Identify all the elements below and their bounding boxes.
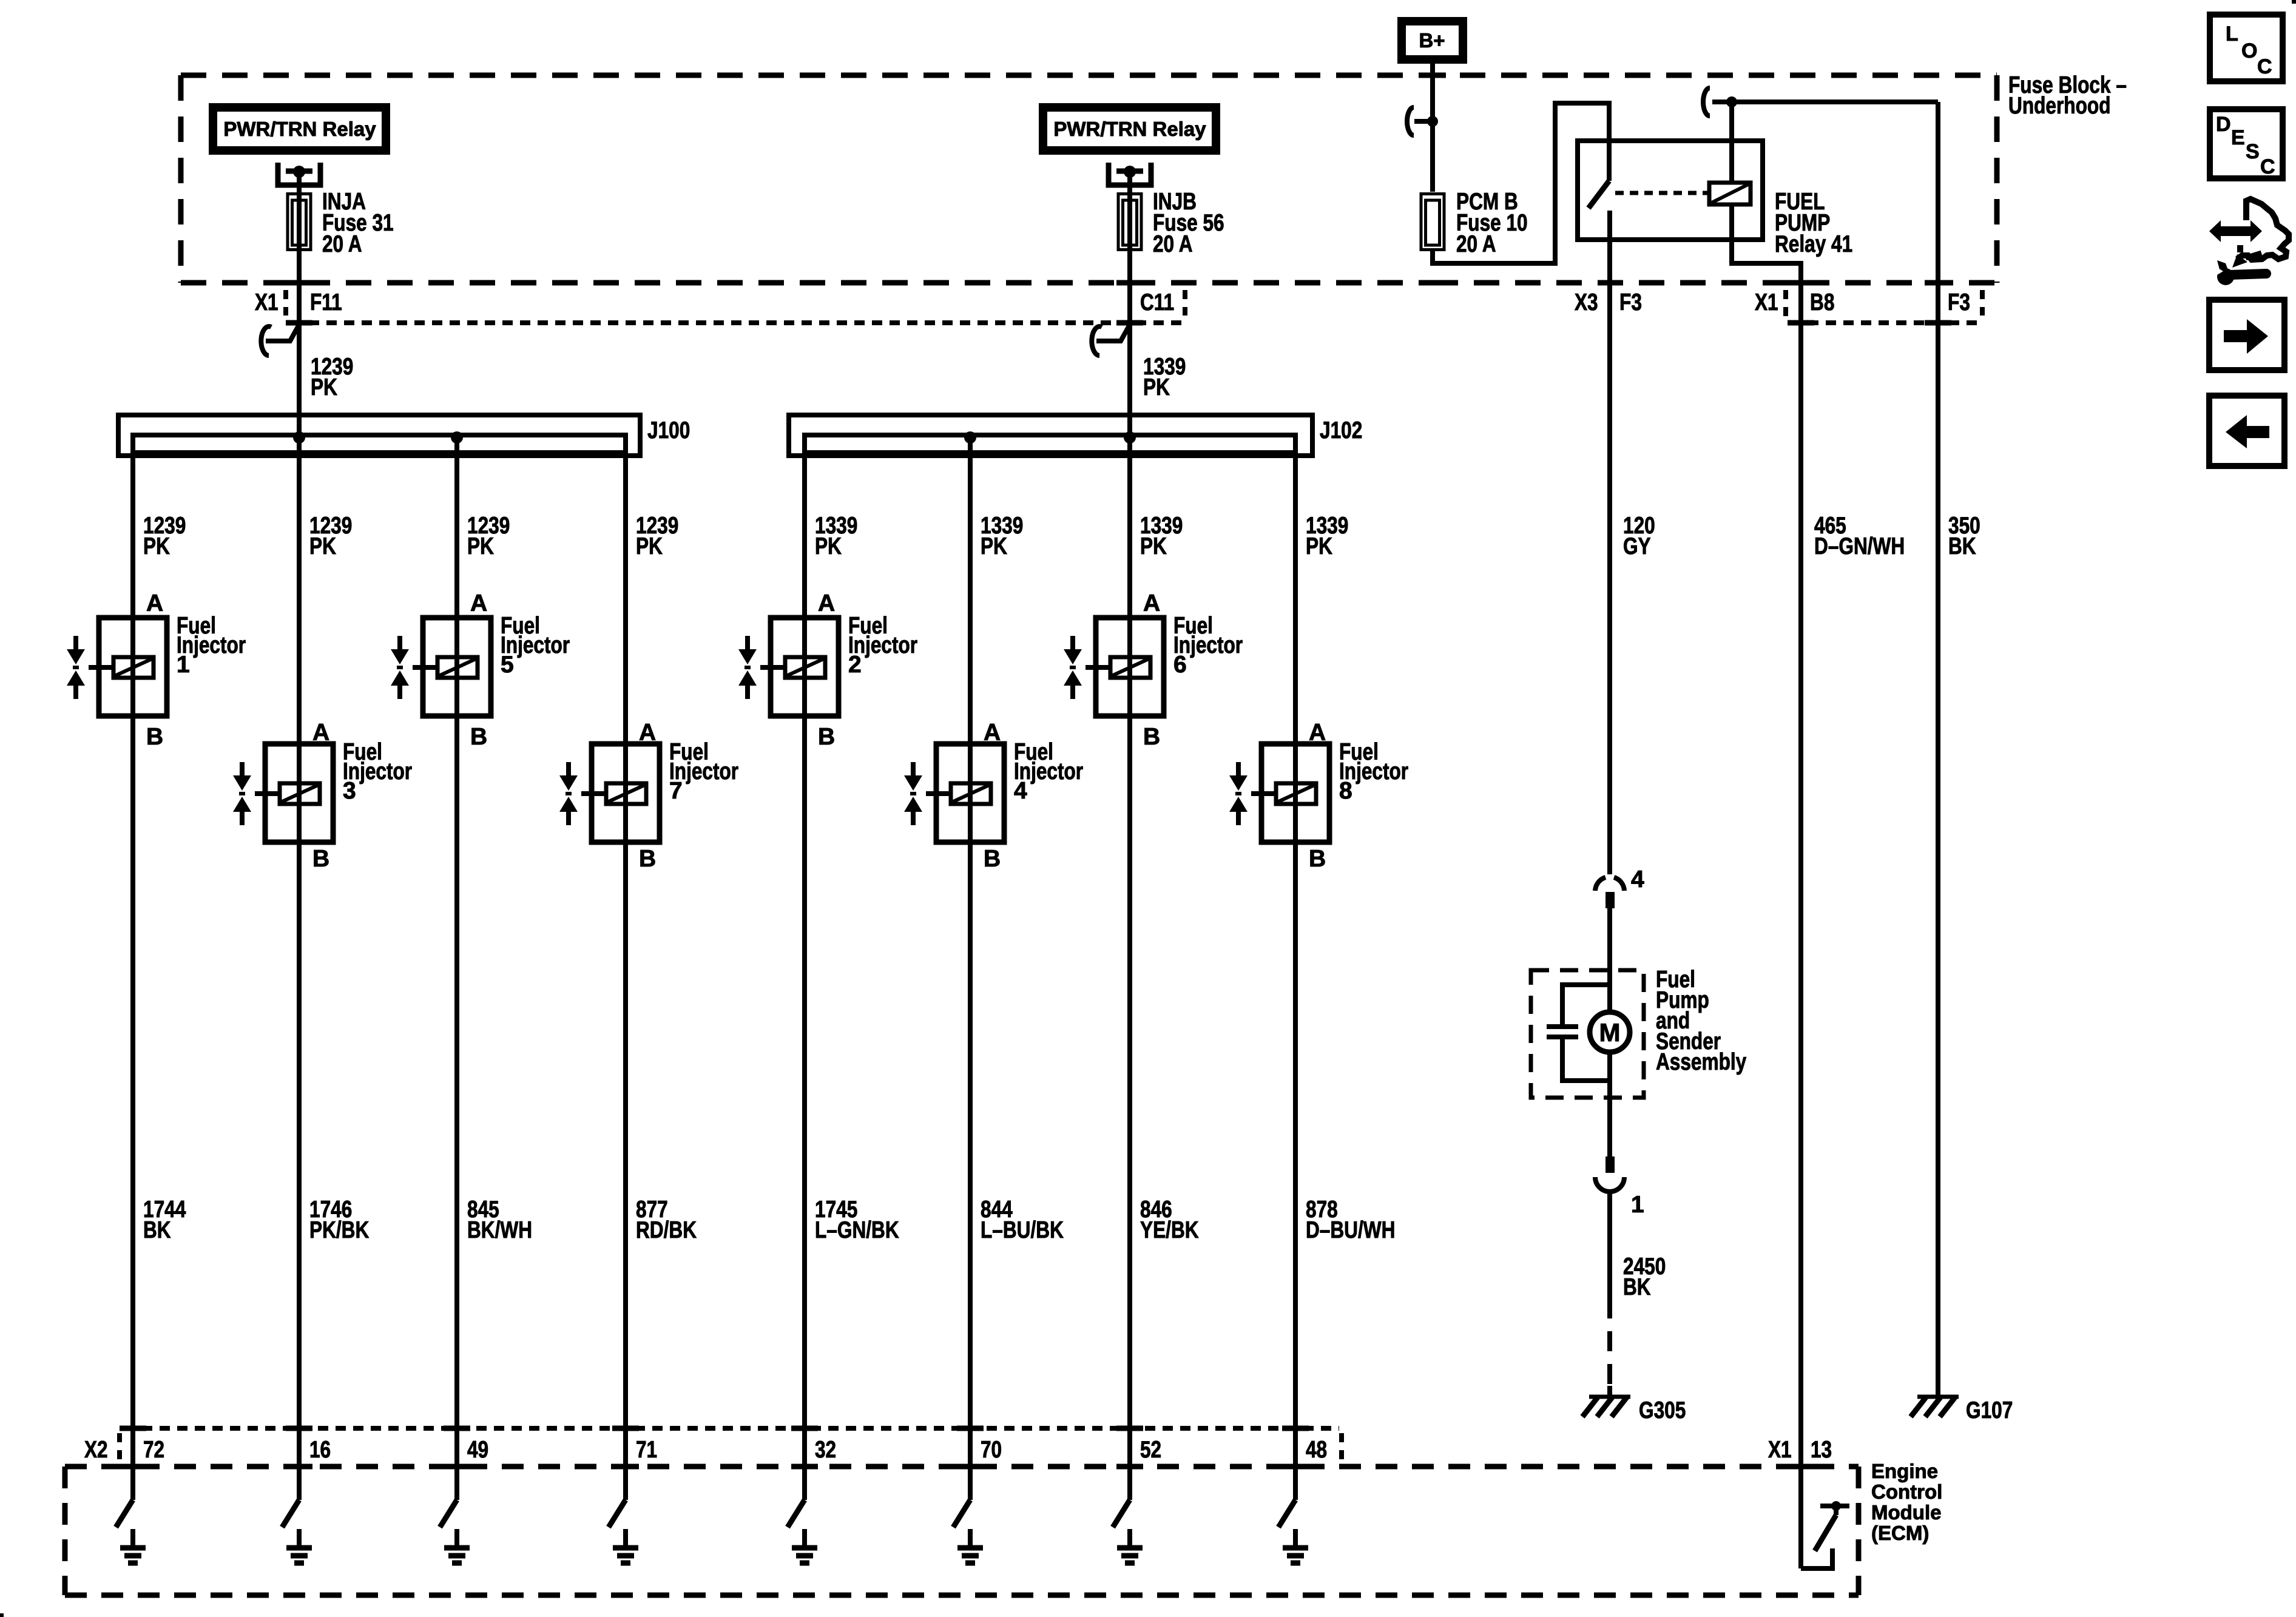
wire column 6 (844 L–BU/BK) [968,437,973,1500]
fuel pump motor M [1590,1012,1630,1052]
svg-text:S: S [2246,140,2260,163]
tick column 5 at X2 strip [791,1426,818,1431]
fuel injector 3 [265,744,333,842]
svg-text:D–GN/WH: D–GN/WH [1814,533,1905,559]
tick column 8 at X2 strip [1282,1426,1309,1431]
wire relay coil to B+ bus [1729,102,1734,183]
svg-text:20 A: 20 A [1456,231,1496,257]
svg-text:20 A: 20 A [1153,231,1193,257]
svg-text:7: 7 [669,778,683,804]
ECM internal fuel pump relay driver [1820,1504,1849,1508]
svg-text:PWR/TRN Relay: PWR/TRN Relay [223,118,376,140]
wire column 7 (846 YE/BK) [1127,437,1132,1500]
svg-text:L–BU/BK: L–BU/BK [981,1217,1064,1243]
separator X2 [117,1433,122,1462]
svg-text:20 A: 20 A [322,231,362,257]
wire column 8 (878 D–BU/WH) [1293,437,1298,1500]
svg-text:A: A [146,590,163,616]
svg-text:F3: F3 [1619,289,1642,316]
svg-text:Engine: Engine [1871,1460,1938,1482]
svg-text:PK/BK: PK/BK [309,1217,369,1243]
ECM internal ground switch pin 70 [953,1500,970,1527]
svg-text:G305: G305 [1639,1397,1686,1423]
svg-text:BK/WH: BK/WH [467,1217,532,1243]
wire column 1 (1744 BK) [130,437,135,1500]
ECM internal ground switch pin 48 [1278,1500,1295,1527]
separator X1|F11 [283,290,288,316]
tick 350 wire at fuse block edge [1925,280,1951,286]
ground G107 [1917,1395,1959,1399]
svg-text:48: 48 [1306,1437,1327,1463]
relay coil [1709,183,1751,204]
svg-text:3: 3 [343,778,356,804]
connector 1 socket arc [1595,1177,1624,1192]
junction dot J102 wire7 [1124,431,1136,444]
tick column 4 at X2 strip [612,1426,639,1431]
separator X1|B8 [1783,290,1788,318]
tick INJB wire at connector strip [1116,320,1143,326]
svg-text:16: 16 [309,1437,331,1463]
relay dashed actuation link [1615,191,1708,195]
svg-text:L: L [2226,22,2238,46]
junction dot B+ entry [1427,116,1438,127]
wire relay to INJA fuse to J100 [297,172,302,437]
svg-text:G107: G107 [1966,1397,2013,1423]
connector strip dotted line B8-F3 [1791,320,1982,325]
ECM dashed box left edge [62,1467,68,1595]
icon DESC button [2210,109,2283,178]
tick column 1 at X2 strip [120,1426,146,1431]
separator right of C11 [1183,290,1187,316]
capacitor plate top [1547,1024,1578,1029]
fuel injector 5 [423,618,491,716]
fuse block dashed box right edge [1994,75,2000,283]
connector 4 socket arc [1595,877,1606,891]
svg-text:A: A [312,720,329,746]
wire PCM B fuse to fuel pump relay switch [1433,103,1609,263]
tick B+ wire at fuse block edge [1419,73,1446,78]
fuse INJA Fuse 31 20A [288,194,311,250]
fuse block dashed box left edge [178,75,184,283]
svg-text:PK: PK [1143,374,1170,400]
svg-text:F3: F3 [1948,289,1970,316]
svg-text:Relay 41: Relay 41 [1775,231,1852,257]
tick INJA wire at connector strip [286,320,312,326]
wire relay coil to ECM 465 branch [1732,204,1801,283]
capacitor plate bottom [1547,1035,1578,1039]
tick column 4 at ECM edge [612,1464,639,1470]
svg-text:X1: X1 [255,289,279,316]
separator right of pin 48 [1339,1433,1344,1462]
J102 bus bar inner [805,435,1295,453]
svg-text:A: A [984,720,1001,746]
svg-text:GY: GY [1623,533,1651,559]
wire stub at G305 [1607,1386,1612,1397]
svg-text:A: A [818,590,835,616]
icon previous page arrow [2209,396,2284,466]
svg-text:X1: X1 [1768,1437,1792,1463]
relay switch blade [1589,181,1609,208]
connector hook at relay coil feed [1703,88,1710,116]
tick column 8 at ECM edge [1282,1464,1309,1470]
wire column 3 (845 BK/WH) [454,437,459,1500]
wire pump motor to pin 1 [1607,1052,1612,1156]
wrench [2217,268,2234,285]
svg-text:B: B [1143,724,1160,750]
svg-text:4: 4 [1014,778,1027,804]
J102 bus bar outer [789,415,1312,456]
ECM internal ground switch pin 16 [282,1500,299,1527]
fuel pump and sender assembly dashed box [1531,970,1644,1098]
svg-text:C: C [2260,155,2275,178]
wire 350 BK to ground G107 [1936,102,1940,1397]
svg-text:B: B [639,846,656,872]
svg-text:PK: PK [1140,533,1167,559]
icon LOC button [2210,15,2283,81]
junction dot relay coil feed [1726,96,1737,107]
ECM internal ground switch pin 72 [116,1500,133,1527]
ECM internal ground switch pin 32 [788,1500,805,1527]
PWR/TRN Relay box B [1039,103,1220,155]
svg-text:PK: PK [309,533,336,559]
tick INJA wire at fuse block edge [286,280,312,286]
tick 465 wire at B8 strip [1788,320,1814,326]
wire column 4 (877 RD/BK) [623,437,628,1500]
svg-text:PK: PK [311,374,337,400]
bar at relay coil feed [1712,100,1732,104]
fuse block dashed box bottom edge left span [181,280,1433,286]
fuel injector 7 [592,744,660,842]
svg-text:B: B [818,724,835,750]
svg-text:J102: J102 [1320,417,1362,444]
wire junction to 350 BK drop [1732,100,1938,104]
fuel injector 8 [1261,744,1329,842]
tick column 3 at ECM edge [444,1464,470,1470]
svg-text:B+: B+ [1419,29,1445,52]
svg-text:B8: B8 [1810,289,1834,316]
page corner mark top right [2292,0,2296,4]
svg-text:PWR/TRN Relay: PWR/TRN Relay [1053,118,1206,140]
svg-text:PK: PK [467,533,494,559]
tick column 6 at X2 strip [957,1426,984,1431]
bent pin below X1/F11 [266,325,299,341]
svg-text:X2: X2 [84,1437,108,1463]
svg-text:Assembly: Assembly [1656,1049,1746,1075]
svg-text:YE/BK: YE/BK [1140,1217,1199,1243]
tick column 3 at X2 strip [444,1426,470,1431]
svg-text:PK: PK [981,533,1007,559]
wire 2450 BK dashed part [1607,1298,1612,1397]
svg-text:72: 72 [143,1437,164,1463]
bar at B+ entry [1414,119,1433,124]
svg-text:B: B [146,724,163,750]
svg-text:X3: X3 [1575,289,1598,316]
svg-text:52: 52 [1140,1437,1161,1463]
tick column 2 at ECM edge [286,1464,312,1470]
J100 bus bar inner [133,435,626,453]
svg-text:C: C [2257,55,2272,78]
wire B+ to PCM B fuse [1430,64,1435,192]
svg-text:B: B [984,846,1001,872]
svg-text:BK: BK [1948,533,1976,559]
svg-text:71: 71 [636,1437,657,1463]
wire column 5 (1745 L–GN/BK) [802,437,807,1500]
tick 465 wire at fuse block edge [1788,280,1814,286]
capacitor branch upper [1562,985,1610,1024]
X2 connector strip dotted line [124,1426,1339,1431]
svg-text:2: 2 [848,652,862,678]
svg-text:PK: PK [636,533,663,559]
svg-text:(ECM): (ECM) [1871,1522,1929,1544]
icon next page arrow [2209,300,2284,370]
B+ battery terminal box [1397,17,1467,64]
ECM dashed box right edge [1856,1467,1862,1595]
fuel injector 4 [936,744,1004,842]
wire relay to INJB fuse to J102 [1127,172,1132,437]
svg-text:PK: PK [143,533,170,559]
connector 1 pin [1606,1156,1615,1173]
svg-text:B: B [1309,846,1326,872]
PWR/TRN Relay box A [209,103,390,155]
tick column 6 at ECM edge [957,1464,984,1470]
fuse PCM B Fuse 10 20A [1421,194,1444,250]
svg-text:70: 70 [981,1437,1002,1463]
svg-text:A: A [1309,720,1326,746]
junction dot J100 wire2 [293,431,305,444]
tick column 7 at X2 strip [1116,1426,1143,1431]
junction dot J100 wire3 [451,431,463,444]
tick column 1 at ECM edge [120,1464,146,1470]
fuse block - underhood dashed box top edge [181,73,1997,78]
svg-text:D: D [2216,113,2231,136]
tick 350 wire at F3 strip [1925,320,1951,326]
ECM internal ground switch pin 52 [1113,1500,1130,1527]
svg-text:C11: C11 [1140,289,1174,316]
svg-text:J100: J100 [647,417,690,444]
svg-text:X1: X1 [1755,289,1778,316]
fuse INJB Fuse 56 20A [1118,194,1141,250]
ECM dashed box bottom edge [65,1593,1859,1598]
svg-text:Control: Control [1871,1480,1942,1503]
ground G305 [1589,1395,1630,1399]
svg-text:A: A [1143,590,1160,616]
fuse block dashed box bottom edge right span [1433,280,1997,286]
svg-text:A: A [639,720,656,746]
relay coil diagonal [1710,184,1749,203]
svg-text:B: B [470,724,487,750]
wire column 2 (1746 PK/BK) [297,437,302,1500]
fuel injector 6 [1096,618,1164,716]
svg-text:5: 5 [501,652,514,678]
fuel pump relay 41 box [1578,141,1763,240]
page corner mark bottom left [0,1613,4,1617]
separator right of F3 [1980,290,1985,316]
svg-text:M: M [1599,1018,1621,1047]
fuel injector 1 [99,618,167,716]
tick 465 wire at ECM edge [1788,1464,1814,1470]
relay switch common stub [1607,211,1612,240]
svg-text:A: A [470,590,487,616]
wire 120 GY relay to fuel pump [1607,240,1612,874]
svg-text:32: 32 [815,1437,836,1463]
svg-text:6: 6 [1173,652,1187,678]
svg-text:O: O [2241,39,2257,62]
svg-text:L–GN/BK: L–GN/BK [815,1217,899,1243]
svg-text:13: 13 [1811,1437,1832,1463]
tick column 5 at ECM edge [791,1464,818,1470]
svg-text:BK: BK [143,1217,171,1243]
relay socket INJB [1109,163,1151,185]
svg-text:Module: Module [1871,1501,1941,1524]
wire pin 4 to pump motor [1607,908,1612,1012]
svg-text:RD/BK: RD/BK [636,1217,697,1243]
connector hook at B+ entry [1407,107,1414,135]
svg-text:PK: PK [1306,533,1332,559]
ECM dashed box top edge [65,1464,1859,1470]
svg-text:1: 1 [177,652,190,678]
svg-text:E: E [2231,126,2245,149]
fuel injector 2 [771,618,839,716]
svg-text:49: 49 [467,1437,488,1463]
svg-text:BK: BK [1623,1274,1651,1300]
svg-text:Underhood: Underhood [2008,93,2111,119]
connector strip dotted line X1/F11-C11 [291,320,1183,325]
relay socket INJA [278,163,320,185]
capacitor branch lower [1562,1039,1610,1081]
junction dot J102 wire6 [964,431,976,444]
J100 bus bar outer [118,415,640,456]
icon locate/repair (double arrow, fender, wrench) [2209,220,2262,242]
svg-text:F11: F11 [310,289,342,316]
wire 2450 BK solid part [1607,1192,1612,1298]
svg-text:1: 1 [1631,1192,1644,1218]
ECM internal ground switch pin 49 [440,1500,457,1527]
tick INJB wire at fuse block edge [1116,280,1143,286]
svg-text:B: B [312,846,329,872]
bent pin below C11 [1096,325,1130,341]
svg-text:8: 8 [1339,778,1352,804]
svg-text:4: 4 [1631,866,1644,893]
tick column 7 at ECM edge [1116,1464,1143,1470]
wire 465 D-GN/WH to ECM pin 13 [1798,283,1803,1568]
svg-text:PK: PK [815,533,842,559]
ECM internal ground switch pin 71 [609,1500,626,1527]
tick column 2 at X2 strip [286,1426,312,1431]
svg-text:D–BU/WH: D–BU/WH [1306,1217,1395,1243]
